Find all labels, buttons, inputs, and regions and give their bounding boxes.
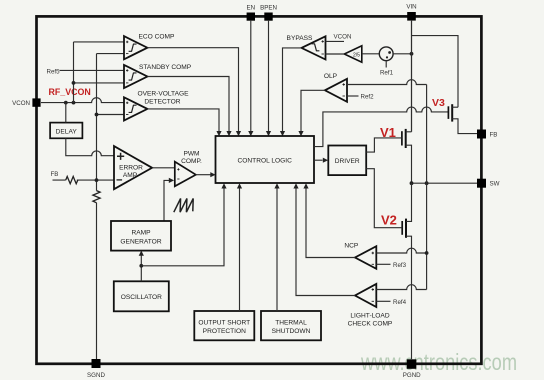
wire BPEN to control logic bbox=[268, 20, 270, 131]
svg-text:V2: V2 bbox=[381, 213, 397, 228]
svg-text:2/5: 2/5 bbox=[353, 53, 360, 59]
svg-text:VCON: VCON bbox=[334, 34, 352, 41]
svg-text:SW: SW bbox=[490, 181, 500, 188]
svg-text:BPEN: BPEN bbox=[260, 5, 277, 12]
svg-text:AMP: AMP bbox=[123, 172, 138, 179]
svg-text:COMP.: COMP. bbox=[181, 158, 202, 165]
svg-text:CHECK COMP: CHECK COMP bbox=[348, 320, 393, 327]
comparator OLP bbox=[325, 79, 347, 102]
svg-text:GENERATOR: GENERATOR bbox=[120, 238, 161, 245]
svg-text:FB: FB bbox=[490, 131, 498, 138]
comparator PWM COMP bbox=[175, 162, 196, 187]
wire error amp out to PWM comp bbox=[152, 167, 175, 169]
wire FB input bbox=[53, 179, 115, 181]
wire OSP to control logic bbox=[239, 188, 241, 311]
wire oscillator to ramp generator bbox=[140, 256, 142, 282]
wire ECO + input bbox=[74, 41, 125, 43]
wire STANDBY - input bbox=[74, 82, 125, 84]
wire VIN branch to V3 drain bbox=[412, 36, 459, 108]
wire Ref1 to VIN line bbox=[393, 53, 411, 55]
svg-text:VCON: VCON bbox=[12, 100, 30, 107]
pin VIN bbox=[407, 12, 416, 21]
comparator LIGHT-LOAD CHECK COMP bbox=[355, 284, 376, 307]
delay block U-DELAY bbox=[50, 123, 82, 139]
op-amp ERROR AMP bbox=[114, 146, 152, 189]
pin VCON bbox=[32, 98, 40, 106]
junction FB node bbox=[95, 178, 99, 182]
pin FB bbox=[477, 130, 486, 139]
block RAMP GENERATOR bbox=[111, 221, 171, 251]
junction dot (comparator branch) bbox=[72, 101, 76, 105]
buffer 2/5 bbox=[344, 46, 362, 62]
svg-text:CONTROL LOGIC: CONTROL LOGIC bbox=[238, 157, 293, 164]
wire thermal shutdown to control logic bbox=[276, 188, 278, 311]
wire OLP + input from SW sense (hop over VIN line) bbox=[347, 80, 427, 85]
svg-text:Ref5: Ref5 bbox=[47, 68, 61, 75]
wire EN to control logic bbox=[250, 20, 252, 131]
resistor R1 (FB series) bbox=[66, 177, 78, 184]
wire Ref5 to STANDBY + input bbox=[60, 69, 125, 71]
svg-text:PGND: PGND bbox=[403, 372, 421, 379]
wire STANDBY output to control logic bbox=[147, 77, 229, 132]
wire BYPASS output to control logic bbox=[283, 48, 302, 131]
wire ECO - input bbox=[97, 53, 125, 55]
block CONTROL LOGIC bbox=[216, 136, 315, 183]
svg-text:LIGHT-LOAD: LIGHT-LOAD bbox=[350, 312, 389, 319]
junction OVD - bbox=[95, 113, 99, 117]
wire driver to V1 gate bbox=[366, 138, 402, 152]
wire VIN rail (pin down to V1 drain) bbox=[411, 20, 413, 132]
junction on VIN line bbox=[410, 52, 414, 56]
svg-text:PROTECTION: PROTECTION bbox=[203, 328, 246, 335]
resistor R2 (FB to SGND) bbox=[93, 191, 100, 203]
junction STANDBY - bbox=[72, 81, 76, 85]
pin EN bbox=[247, 13, 255, 21]
svg-text:NCP: NCP bbox=[344, 243, 359, 250]
svg-text:SHUTDOWN: SHUTDOWN bbox=[272, 328, 311, 335]
wire NCP output to control logic bbox=[306, 188, 355, 257]
wire control logic to driver bbox=[314, 159, 323, 161]
pin SGND bbox=[92, 359, 101, 368]
sawtooth waveform symbol bbox=[174, 199, 193, 213]
svg-text:BYPASS: BYPASS bbox=[287, 35, 314, 42]
wire NCP + input from SW sense (hop over PGND line) bbox=[376, 248, 426, 253]
svg-text:ECO COMP: ECO COMP bbox=[139, 33, 176, 40]
current source Ref1 bbox=[379, 47, 393, 61]
pin SW bbox=[477, 179, 486, 188]
node Ref3 bbox=[376, 263, 390, 265]
svg-text:EN: EN bbox=[246, 5, 255, 12]
svg-text:DETECTOR: DETECTOR bbox=[144, 98, 180, 105]
wire SW sense vertical (OLP/NCP/LLCC) bbox=[426, 85, 428, 290]
svg-text:SGND: SGND bbox=[87, 372, 105, 379]
wire ECO output to control logic bbox=[147, 48, 238, 132]
svg-text:STANDBY COMP: STANDBY COMP bbox=[139, 64, 192, 71]
svg-text:OVER-VOLTAGE: OVER-VOLTAGE bbox=[137, 91, 189, 98]
wire LLCC output to control logic bbox=[296, 188, 355, 295]
comparator ECO COMP bbox=[124, 36, 147, 59]
svg-text:V3: V3 bbox=[432, 97, 445, 109]
svg-text:OSCILLATOR: OSCILLATOR bbox=[121, 294, 162, 301]
svg-text:VIN: VIN bbox=[406, 4, 416, 11]
wire LLCC + input from SW sense (hop over PGND line) bbox=[376, 285, 426, 290]
junction oscillator branch bbox=[139, 264, 143, 268]
wire control logic to V3 gate (hops over VIN and SW sense lines) bbox=[314, 107, 448, 147]
junction dot (delay branch) bbox=[64, 101, 68, 105]
svg-text:OLP: OLP bbox=[324, 73, 338, 80]
wire OVD - input bbox=[97, 114, 125, 116]
svg-text:PWM: PWM bbox=[183, 150, 199, 157]
block DRIVER bbox=[328, 146, 366, 176]
comparator STANDBY COMP bbox=[124, 65, 147, 88]
svg-text:RAMP: RAMP bbox=[131, 229, 151, 236]
wire PWM comp output to control logic bbox=[196, 174, 211, 176]
svg-text:Ref2: Ref2 bbox=[361, 93, 375, 100]
wire ramp to PWM - input bbox=[164, 180, 169, 221]
wire DELAY output to error amp + (hop over FB vertical) bbox=[66, 138, 114, 155]
block THERMAL SHUTDOWN bbox=[261, 311, 321, 340]
node Ref4 bbox=[376, 300, 390, 302]
comparator OVER-VOLTAGE DETECTOR bbox=[124, 97, 147, 120]
wire OLP output to control logic bbox=[301, 90, 325, 131]
wire oscillator to control logic bbox=[141, 188, 224, 265]
svg-text:ERROR: ERROR bbox=[119, 164, 143, 171]
node Ref2 bbox=[347, 95, 359, 97]
wire comparator branch vertical x=73.5 bbox=[73, 42, 75, 103]
wire VCON main (VCON pin to OVD + input, hop over FB vertical) bbox=[41, 98, 124, 103]
svg-text:DRIVER: DRIVER bbox=[335, 158, 360, 165]
svg-text:Ref1: Ref1 bbox=[380, 70, 394, 77]
comparator NCP bbox=[355, 246, 376, 269]
svg-text:OUTPUT SHORT: OUTPUT SHORT bbox=[198, 319, 250, 326]
wire VCON to DELAY input bbox=[65, 103, 67, 123]
svg-text:Ref4: Ref4 bbox=[393, 299, 407, 306]
wire Ref1 to 2/5 input bbox=[362, 53, 380, 55]
wire 2/5 output to BYPASS - input bbox=[326, 53, 345, 55]
block OUTPUT SHORT PROTECTION bbox=[194, 311, 254, 340]
svg-text:www.cntronics.com: www.cntronics.com bbox=[360, 349, 517, 375]
svg-text:THERMAL: THERMAL bbox=[275, 319, 307, 326]
svg-text:Ref3: Ref3 bbox=[393, 262, 407, 269]
wire driver to V2 gate bbox=[366, 169, 402, 228]
wire SW node bbox=[412, 182, 478, 184]
svg-text:FB: FB bbox=[51, 171, 59, 178]
pin BPEN bbox=[264, 13, 272, 21]
svg-text:DELAY: DELAY bbox=[56, 128, 78, 135]
IC boundary box bbox=[37, 16, 482, 363]
block OSCILLATOR bbox=[114, 281, 169, 311]
pin PGND bbox=[407, 359, 417, 369]
comparator BYPASS bbox=[302, 36, 326, 59]
wire FB sense vertical x=96.5 bbox=[96, 54, 98, 359]
wire OVD output to control logic bbox=[147, 109, 219, 131]
svg-text:RF_VCON: RF_VCON bbox=[49, 87, 91, 98]
